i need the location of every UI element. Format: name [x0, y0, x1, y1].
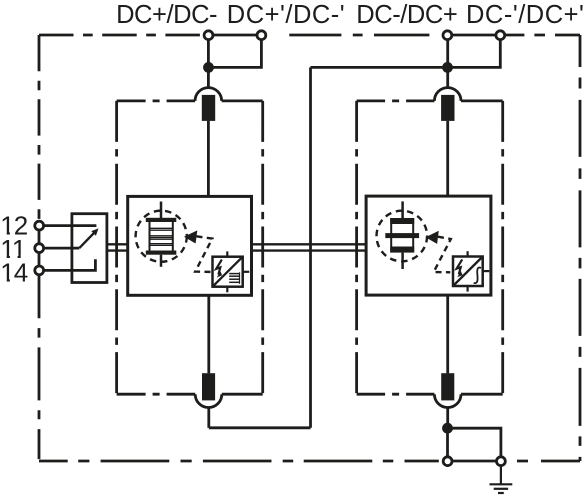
- box D2 right lead: [483, 270, 490, 272]
- wire solid top border between DC-/DC+ and DC-'/DC+' terminals: [452, 34, 496, 37]
- wire from SCI box 1 bottom to disconnector F1b: [207, 295, 210, 373]
- box D2 diagonal: [453, 257, 483, 287]
- disconnector F1 (top fuse black body): [202, 95, 215, 121]
- varistor V2 top cap bar: [390, 218, 414, 224]
- outer dash-dot enclosure border bottom-left segment: [39, 460, 443, 463]
- mechanical link SCI box 1 to SCI box 2: [252, 244, 367, 250]
- wire solid top border between DC+/DC- and DC+'/DC-' terminals: [213, 34, 257, 37]
- wire terminal 11 inside box: [72, 247, 79, 250]
- wire terminal 12 inside box: [72, 224, 97, 227]
- wire from node B left toward mid rail: [311, 66, 444, 69]
- svg-text:DC-'/DC+': DC-'/DC+': [466, 1, 584, 29]
- varistor V1 bottom cap bar: [146, 251, 177, 255]
- disconnect device box D1: [213, 257, 243, 287]
- wire from terminal DC-'/DC+' drop: [452, 40, 500, 68]
- node A junction dot: [203, 62, 214, 73]
- box D1 winding pictogram: [229, 272, 240, 284]
- box D2 flash symbol: [457, 259, 463, 274]
- box D2 top lead: [467, 251, 469, 256]
- wire from node C right and down to ground terminal 2: [448, 428, 501, 456]
- remote contact box K1: [72, 214, 107, 283]
- box D2 bottom lead: [467, 286, 469, 292]
- outer dash-dot enclosure border top-middle segment: [266, 34, 442, 37]
- box D1 diagonal: [213, 257, 243, 287]
- mechanical link relay to SCI box 1: [107, 244, 128, 250]
- terminal DC+/DC-: [204, 31, 213, 40]
- svg-text:14: 14: [0, 258, 27, 288]
- node C junction dot: [442, 423, 453, 434]
- terminal 12: [35, 221, 44, 230]
- varistor V1 top cap bar: [146, 218, 177, 222]
- switch blade arrow tip: [91, 228, 98, 235]
- wire from terminal 12: [44, 224, 97, 227]
- svg-text:DC-/DC+: DC-/DC+: [356, 1, 457, 29]
- svg-text:DC+/DC-: DC+/DC-: [116, 1, 217, 29]
- wire from terminal 14 with hook: [44, 259, 96, 270]
- wire from terminal DC+/DC- down through node to disconnector F1: [207, 40, 210, 88]
- module 1 dash-dot box top edge: [117, 100, 195, 103]
- wire hump crossing module 2 bottom border: [434, 394, 461, 407]
- varistor V1 winding body: [150, 222, 173, 251]
- module 1 dash-dot box right edge: [261, 101, 264, 394]
- wire mid rail vertical: [309, 67, 312, 427]
- SCI box 1: [128, 196, 252, 295]
- outer dash-dot enclosure border left lower segment: [38, 275, 41, 461]
- varistor V2 thermal break bar: [385, 233, 419, 238]
- terminal DC+'/DC-': [257, 31, 266, 40]
- varistor V2 bottom lead: [401, 253, 404, 269]
- module 2 dash-dot box right edge: [501, 101, 504, 394]
- arrow pointing at varistor V2: [426, 231, 439, 244]
- varistor V2 dashed circle: [377, 211, 428, 262]
- wire from terminal 11: [44, 247, 80, 250]
- box D1 flash symbol: [216, 260, 222, 275]
- outer dash-dot enclosure border bottom-right segment: [506, 460, 580, 463]
- wire hump crossing module 1 bottom border: [195, 394, 222, 407]
- svg-text:DC+'/DC-': DC+'/DC-': [227, 1, 345, 29]
- outer dash-dot enclosure border top-right segment: [505, 34, 580, 37]
- outer dash-dot enclosure border right side: [579, 35, 582, 461]
- terminal 11: [35, 244, 44, 253]
- dashed actuator path Z shape module 1: [195, 236, 212, 272]
- wire from terminal DC-/DC+ down through node to disconnector F2: [446, 40, 449, 88]
- outer dash-dot enclosure border left upper segment: [38, 35, 41, 221]
- terminal DC-'/DC+': [496, 31, 505, 40]
- wire hump crossing module 2 top border: [434, 88, 461, 101]
- wire bottom link from module 1 output to mid rail: [209, 426, 311, 429]
- box D1 bottom lead: [226, 287, 228, 293]
- switch blade of changeover contact: [79, 233, 94, 249]
- wire from SCI box 2 bottom to disconnector F2b: [446, 295, 449, 373]
- wire below disconnector F1b through hump: [207, 407, 210, 428]
- dashed actuator path Z shape module 2: [434, 237, 451, 273]
- wire from node C down to ground terminal 1: [446, 428, 449, 456]
- terminal 14: [35, 266, 44, 275]
- disconnector F1b (bottom fuse black body): [202, 373, 215, 400]
- outer dash-dot enclosure border top-left segment: [39, 34, 204, 37]
- varistor V2 body sides: [391, 224, 413, 247]
- wire solid left border between terminals 12 11 14: [38, 230, 41, 266]
- disconnector F2 (top fuse black body): [441, 95, 454, 121]
- varistor V1 bottom lead: [160, 255, 163, 267]
- module 2 dash-dot box top edge: [357, 100, 435, 103]
- box D1 right lead: [243, 271, 250, 273]
- ground symbol: [490, 466, 513, 493]
- serif masks for digit 1 glyphs: [1, 232, 25, 282]
- wire from terminal DC+'/DC-' drop: [213, 40, 261, 68]
- varistor V1 top lead: [160, 202, 163, 219]
- box D2 integral sign: [474, 268, 481, 284]
- wire from disconnector F1 to SCI box 1: [207, 121, 210, 197]
- ground terminal 1: [443, 457, 452, 466]
- module 2 dash-dot box bottom edge: [461, 393, 503, 396]
- wire below disconnector F2b to node C: [446, 407, 449, 428]
- varistor V2 top lead: [401, 201, 404, 218]
- varistor V2 bottom cap bar: [390, 247, 414, 253]
- module 2 dash-dot box left edge: [355, 101, 358, 394]
- wire from disconnector F2 to SCI box 2: [446, 121, 449, 196]
- box D1 top lead: [226, 251, 228, 256]
- arrow pointing at varistor V1: [184, 230, 197, 243]
- SCI box 2: [366, 196, 491, 295]
- varistor V1 dashed circle: [136, 211, 187, 262]
- wire hump crossing module 1 top border: [195, 88, 222, 101]
- node B junction dot: [442, 62, 453, 73]
- terminal DC-/DC+: [443, 31, 452, 40]
- wire terminal 14 inside box: [72, 259, 96, 270]
- disconnector F2b (bottom fuse black body): [441, 373, 454, 400]
- disconnect device box D2: [453, 257, 483, 287]
- module 1 dash-dot box left edge: [115, 101, 118, 394]
- ground terminal 2: [497, 457, 506, 466]
- module 1 dash-dot box bottom edge: [222, 393, 263, 396]
- wire solid bottom border between ground terminals: [452, 460, 496, 463]
